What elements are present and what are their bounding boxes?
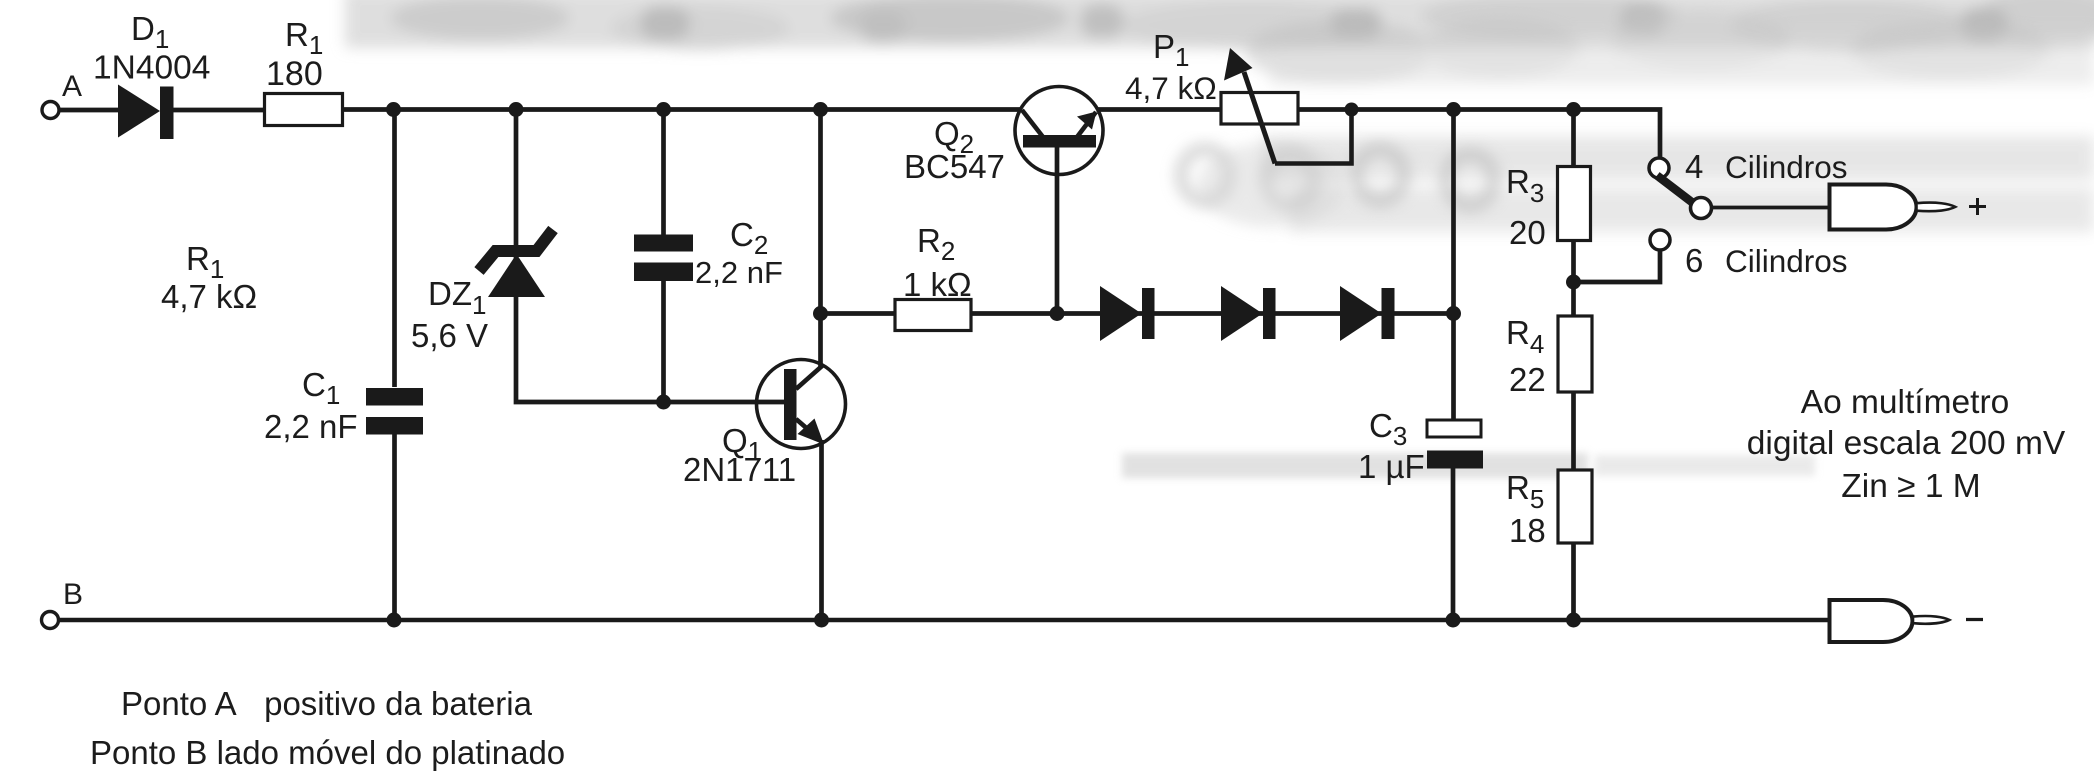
- wire contact 6 to R3/R4 node: [1574, 250, 1661, 283]
- wire D1 to R1: [173, 108, 265, 113]
- node bottom rail x821: [814, 613, 829, 628]
- wire rail to R3: [1571, 110, 1576, 168]
- svg-text:Zin ≥ 1 M: Zin ≥ 1 M: [1841, 468, 1980, 505]
- wire common to plus plug: [1711, 206, 1830, 210]
- diode D1: [118, 85, 174, 140]
- svg-text:1N4004: 1N4004: [93, 50, 210, 87]
- wire top rail P1 to corner: [1298, 110, 1660, 159]
- svg-text:5,6 V: 5,6 V: [411, 317, 488, 354]
- wire top rail Q2 to P1: [1098, 107, 1222, 112]
- node R2 line x820: [813, 306, 828, 321]
- node R2 line x1057: [1050, 306, 1065, 321]
- wire rail down at 1453: [1451, 110, 1456, 421]
- diode D3: [1221, 286, 1276, 341]
- ghost band right: [1245, 10, 2094, 232]
- node top rail x1573: [1566, 102, 1581, 117]
- plus sign: [1969, 198, 1986, 215]
- ghost band top: [345, 0, 2094, 51]
- switch contact 6: [1650, 230, 1670, 250]
- svg-text:18: 18: [1509, 512, 1546, 549]
- ghost blob below P1: [1197, 143, 1347, 227]
- zener DZ1 symbol: [488, 254, 545, 297]
- svg-text:4,7 kΩ: 4,7 kΩ: [1125, 70, 1217, 106]
- Q2 emitter: [1077, 112, 1096, 137]
- capacitor C2 wire top: [661, 110, 666, 236]
- node DZ wire x663: [656, 395, 671, 410]
- svg-text:digital escala 200 mV: digital escala 200 mV: [1747, 425, 2066, 462]
- switch lever: [1657, 176, 1693, 204]
- node top rail x1453: [1446, 102, 1461, 117]
- svg-text:4,7 kΩ: 4,7 kΩ: [161, 278, 257, 315]
- node R3 R4 x1573: [1566, 275, 1581, 290]
- Q2 collector: [1022, 110, 1043, 137]
- wire top rail R1 to Q2: [343, 107, 1021, 112]
- Q1 emitter arrow: [798, 419, 825, 445]
- svg-text:Cilindros: Cilindros: [1725, 149, 1848, 185]
- transistor Q2 circle: [1015, 87, 1103, 175]
- Q1 emitter: [796, 419, 818, 438]
- svg-text:2,2 nF: 2,2 nF: [264, 408, 358, 445]
- node top rail x393: [386, 102, 401, 117]
- wire collector node down at 820: [818, 110, 823, 369]
- svg-text:Ao multímetro: Ao multímetro: [1801, 384, 2010, 421]
- minus sign: [1966, 618, 1983, 621]
- svg-text:1 kΩ: 1 kΩ: [903, 266, 972, 303]
- svg-text:1 µF: 1 µF: [1358, 448, 1425, 485]
- svg-text:4: 4: [1685, 148, 1703, 185]
- capacitor C2: [634, 235, 693, 282]
- Q2 base bar: [1023, 135, 1096, 148]
- terminal A: [42, 102, 59, 119]
- ghost letters mid right: [1181, 149, 1494, 206]
- capacitor C1 wire top: [392, 110, 397, 388]
- terminal B: [42, 612, 59, 629]
- resistor R5: [1558, 470, 1592, 543]
- resistor R4: [1558, 316, 1592, 392]
- Q2 emitter arrow: [1077, 112, 1097, 130]
- capacitor C1 wire bottom: [392, 434, 397, 620]
- wire R5 to bottom rail: [1571, 543, 1576, 620]
- svg-text:180: 180: [266, 55, 323, 93]
- resistor R1: [265, 94, 343, 126]
- capacitor C3: [1427, 420, 1481, 437]
- resistor R2: [895, 300, 971, 331]
- wire C3 to bottom rail: [1451, 469, 1456, 621]
- svg-text:BC547: BC547: [904, 148, 1005, 185]
- resistor R3: [1558, 167, 1591, 241]
- svg-text:Ponto B lado móvel do platinad: Ponto B lado móvel do platinado: [90, 734, 565, 771]
- transistor Q1 circle: [757, 360, 846, 449]
- diode D2: [1100, 286, 1155, 341]
- svg-text:22: 22: [1509, 361, 1546, 398]
- plug minus tip: [1913, 616, 1949, 624]
- Q1 collector: [796, 366, 822, 389]
- ghost streak mid: [1122, 453, 1588, 478]
- node bottom rail x1453: [1446, 613, 1461, 628]
- wire R3 to R4: [1571, 241, 1576, 317]
- P1 wiper arrow: [1244, 72, 1275, 164]
- svg-text:2,2 nF: 2,2 nF: [695, 255, 783, 290]
- P1 wiper return wire: [1275, 110, 1352, 164]
- banana plug plus: [1830, 185, 1917, 230]
- svg-text:A: A: [62, 70, 82, 103]
- node bottom rail x394: [387, 613, 402, 628]
- svg-text:B: B: [63, 578, 83, 611]
- diode D4: [1340, 286, 1395, 341]
- node bottom rail x1573: [1566, 613, 1581, 628]
- switch contact 4: [1649, 158, 1669, 178]
- node diode line x1453: [1446, 306, 1461, 321]
- wire R4 to R5: [1571, 392, 1576, 470]
- svg-text:Cilindros: Cilindros: [1725, 243, 1848, 279]
- node top rail x516: [509, 102, 524, 117]
- wire R2 diode line: [821, 311, 896, 316]
- node top rail x663: [656, 102, 671, 117]
- Q1 emitter wire down: [819, 440, 824, 620]
- capacitor C1: [366, 388, 423, 435]
- node top rail x820: [813, 102, 828, 117]
- banana plug minus: [1830, 600, 1913, 642]
- zener DZ1 wire: [516, 110, 784, 403]
- svg-text:20: 20: [1509, 214, 1546, 251]
- svg-text:Ponto A positivo da bateria: Ponto A positivo da bateria: [121, 685, 533, 722]
- potentiometer P1: [1221, 93, 1298, 125]
- svg-text:6: 6: [1685, 242, 1703, 279]
- switch common contact: [1691, 198, 1712, 219]
- capacitor C2 wire bottom: [661, 281, 666, 402]
- Q1 base bar: [784, 369, 797, 440]
- svg-text:2N1711: 2N1711: [683, 451, 796, 488]
- plug plus tip: [1917, 203, 1956, 212]
- bottom rail: [59, 618, 1830, 623]
- wire A to D1: [60, 108, 120, 113]
- node top rail x1351: [1345, 103, 1359, 117]
- Q2 base lead: [1055, 147, 1060, 314]
